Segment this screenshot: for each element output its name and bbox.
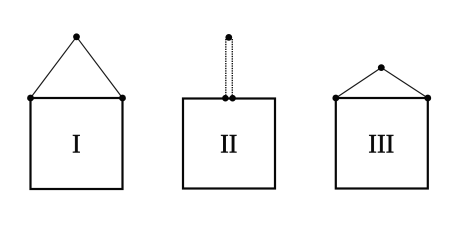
square block I — [31, 98, 123, 189]
square block III — [336, 98, 428, 189]
string right of pendulum III — [381, 68, 428, 98]
svg-text:I: I — [72, 130, 81, 159]
square block II — [183, 99, 275, 189]
svg-text:II: II — [220, 130, 237, 159]
string right of pendulum I — [77, 37, 123, 98]
pivot dot top-right corner III — [424, 95, 431, 102]
pivot dot apex III — [378, 64, 385, 71]
string left of pendulum I — [31, 37, 77, 98]
pivot dot top-left corner I — [27, 95, 34, 102]
rod right edge II (dotted) — [231, 39, 233, 97]
pivot dot apex I — [73, 33, 80, 40]
svg-text:III: III — [368, 130, 394, 159]
rod left edge II (dotted) — [225, 39, 227, 97]
pivot dot bottom-left of rod II — [222, 95, 229, 102]
pivot dot top-left corner III — [332, 95, 339, 102]
pivot dot top of rod II — [225, 34, 232, 41]
pivot dot top-right corner I — [119, 95, 126, 102]
pivot dot bottom-right of rod II — [229, 95, 236, 102]
string left of pendulum III — [336, 68, 382, 98]
